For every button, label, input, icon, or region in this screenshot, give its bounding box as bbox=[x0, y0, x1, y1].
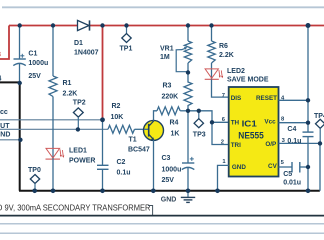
pin number 1 bbox=[222, 159, 226, 165]
LED2 bbox=[205, 68, 269, 84]
svg-text:R6: R6 bbox=[219, 43, 228, 50]
node label 3 bbox=[0, 52, 1, 59]
svg-text:GND: GND bbox=[232, 164, 246, 171]
wire pin3 output bbox=[279, 142, 321, 144]
svg-text:Vcc: Vcc bbox=[0, 109, 8, 116]
pin number 8 bbox=[281, 117, 285, 123]
svg-text:TP0: TP0 bbox=[28, 167, 41, 174]
svg-text:LED1: LED1 bbox=[69, 148, 87, 155]
bottom dark line bbox=[0, 215, 324, 217]
wire black module lead top bbox=[0, 82, 20, 190]
wire T1 collector bbox=[154, 111, 158, 121]
capacitor C2 bbox=[97, 120, 131, 191]
net OUT label bbox=[0, 123, 10, 130]
svg-text:C2: C2 bbox=[117, 159, 126, 166]
wire black ground rail bbox=[19, 190, 320, 192]
svg-text:Vcc: Vcc bbox=[264, 119, 276, 126]
wire threshold node bbox=[188, 111, 229, 123]
test point TP0 bbox=[28, 167, 41, 191]
svg-text:RESET: RESET bbox=[256, 95, 277, 102]
svg-text:0.01u: 0.01u bbox=[283, 179, 301, 186]
test point TP4 bbox=[314, 113, 324, 143]
svg-text:2: 2 bbox=[221, 139, 224, 145]
svg-text:1K: 1K bbox=[171, 131, 180, 138]
ground symbol bbox=[161, 191, 195, 204]
capacitor C5 bbox=[279, 162, 309, 186]
resistor R6 bbox=[208, 26, 234, 80]
test point TP1 bbox=[120, 26, 133, 53]
svg-text:OUT: OUT bbox=[0, 123, 10, 130]
svg-text:7: 7 bbox=[222, 93, 225, 99]
svg-text:LED2: LED2 bbox=[227, 68, 245, 75]
svg-text:POWER: POWER bbox=[69, 157, 95, 164]
wire pin4 reset bbox=[279, 99, 309, 101]
svg-text:C3: C3 bbox=[162, 155, 171, 162]
pin number 7 bbox=[222, 93, 225, 99]
pin number 6 bbox=[222, 117, 226, 123]
svg-text:0.1u: 0.1u bbox=[117, 169, 131, 176]
svg-text:2.2K: 2.2K bbox=[63, 91, 78, 98]
bottom light line 2 bbox=[0, 232, 324, 234]
top frame line bbox=[2, 6, 324, 8]
svg-text:D1: D1 bbox=[74, 40, 83, 47]
svg-text:SAVE MODE: SAVE MODE bbox=[227, 77, 269, 84]
svg-text:C4: C4 bbox=[287, 126, 296, 133]
svg-text:C5: C5 bbox=[283, 171, 292, 178]
svg-text:3: 3 bbox=[0, 52, 1, 59]
wire red input left bbox=[0, 26, 9, 60]
svg-text:CV: CV bbox=[268, 163, 278, 170]
wire T1 emitter bbox=[153, 140, 155, 191]
svg-text:25V: 25V bbox=[28, 73, 41, 80]
svg-text:C1: C1 bbox=[28, 50, 37, 57]
svg-text:25V: 25V bbox=[162, 177, 175, 184]
svg-text:TP1: TP1 bbox=[120, 46, 133, 53]
svg-text:GND: GND bbox=[0, 131, 10, 138]
net Vcc label bbox=[0, 109, 8, 116]
test point TP3 bbox=[193, 111, 206, 139]
pin number 2 bbox=[221, 139, 224, 145]
wire output drop bbox=[319, 143, 321, 190]
svg-text:VR1: VR1 bbox=[160, 46, 174, 53]
pin number 3 bbox=[282, 138, 286, 144]
pin number 5 bbox=[281, 160, 285, 166]
svg-text:2.2K: 2.2K bbox=[219, 52, 234, 59]
capacitor C4 bbox=[287, 126, 313, 191]
svg-text:TH: TH bbox=[231, 119, 240, 126]
svg-text:R3: R3 bbox=[163, 82, 172, 89]
svg-text:BC547: BC547 bbox=[128, 147, 150, 154]
svg-text:O 9V, 300mA SECONDARY TRANSFOR: O 9V, 300mA SECONDARY TRANSFORMER bbox=[0, 203, 151, 213]
LED1 bbox=[46, 148, 96, 191]
IC1 NE555 bbox=[229, 87, 279, 177]
capacitor C3 bbox=[162, 111, 195, 191]
capacitor C1 bbox=[13, 26, 48, 84]
svg-text:0.1u: 0.1u bbox=[287, 138, 301, 145]
svg-text:O/P: O/P bbox=[265, 141, 276, 148]
svg-text:TP4: TP4 bbox=[314, 113, 324, 120]
svg-text:T1: T1 bbox=[129, 137, 137, 144]
test point TP2 bbox=[73, 100, 86, 130]
svg-text:NE555: NE555 bbox=[238, 130, 263, 141]
wire positive red rail bbox=[9, 25, 324, 27]
net GND label bbox=[0, 131, 10, 138]
wire trigger drop bbox=[212, 122, 229, 144]
wire vcc vertical right bbox=[307, 26, 309, 133]
caption transformer bbox=[0, 203, 151, 213]
diode D1 bbox=[74, 20, 99, 56]
svg-text:R2: R2 bbox=[112, 103, 121, 110]
wire LED2 to pin7 bbox=[212, 79, 229, 97]
potentiometer VR1 bbox=[160, 26, 192, 73]
svg-text:R1: R1 bbox=[63, 80, 72, 87]
wire pin1 to ground bbox=[218, 165, 229, 190]
pin number 4 bbox=[281, 96, 285, 102]
resistor R3 bbox=[162, 73, 193, 112]
svg-text:10K: 10K bbox=[111, 114, 124, 121]
svg-text:1M: 1M bbox=[160, 54, 170, 61]
svg-text:4: 4 bbox=[0, 76, 2, 83]
wire pin8 vcc bbox=[279, 122, 309, 124]
svg-text:R4: R4 bbox=[170, 120, 179, 127]
svg-text:1000u: 1000u bbox=[162, 167, 182, 174]
wire Vcc line A bbox=[0, 119, 103, 121]
svg-text:TP3: TP3 bbox=[193, 132, 206, 139]
resistor R1 bbox=[49, 26, 77, 160]
node label 4 bbox=[0, 76, 2, 83]
transistor T1 bbox=[128, 120, 164, 153]
caption box corner bbox=[148, 206, 153, 216]
svg-text:TRI: TRI bbox=[231, 142, 241, 149]
svg-text:IC1: IC1 bbox=[242, 118, 257, 128]
svg-text:TP2: TP2 bbox=[73, 100, 86, 107]
svg-text:DIS: DIS bbox=[231, 95, 242, 102]
wire GND line C bbox=[0, 139, 20, 141]
svg-text:GND: GND bbox=[161, 197, 177, 204]
svg-text:1N4007: 1N4007 bbox=[74, 50, 99, 57]
bottom light line 1 bbox=[0, 223, 324, 225]
svg-text:220K: 220K bbox=[162, 93, 179, 100]
wire OUT line B bbox=[0, 128, 108, 130]
resistor R4 bbox=[157, 107, 188, 138]
resistor R2 bbox=[108, 103, 144, 133]
wire red drop to Vcc line bbox=[102, 26, 104, 120]
svg-text:1000u: 1000u bbox=[28, 60, 48, 67]
